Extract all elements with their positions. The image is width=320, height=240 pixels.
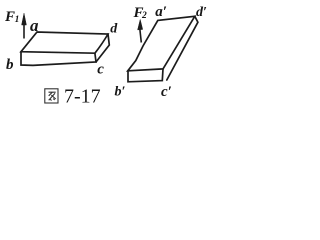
svg-text:a′: a′ (155, 4, 167, 20)
svg-text:2: 2 (141, 11, 147, 21)
svg-text:d: d (110, 22, 118, 37)
svg-text:c: c (97, 62, 104, 78)
svg-text:b′: b′ (115, 85, 126, 100)
svg-text:d′: d′ (196, 5, 207, 20)
svg-text:7-17: 7-17 (64, 85, 101, 107)
svg-text:1: 1 (15, 15, 20, 25)
svg-text:b: b (6, 57, 14, 73)
svg-text:F: F (4, 9, 15, 25)
svg-text:c′: c′ (161, 84, 172, 100)
svg-text:a: a (30, 16, 39, 35)
